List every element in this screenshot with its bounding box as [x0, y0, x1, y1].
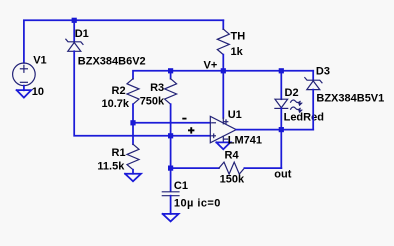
junction (D2 top) [279, 68, 284, 73]
junction (R2 bottom / R1 / - wire) [130, 120, 135, 125]
voltage source V1 [13, 63, 36, 90]
zener diode D1 [66, 39, 83, 51]
resistor TH [217, 20, 229, 71]
svg-text:750k: 750k [140, 96, 165, 108]
svg-text:R1: R1 [112, 147, 126, 159]
wire (output node to D3 bottom) [281, 129, 313, 131]
svg-text:10µ ic=0: 10µ ic=0 [174, 197, 221, 209]
svg-text:R2: R2 [112, 85, 126, 97]
wire V+ rail [133, 71, 313, 79]
svg-text:V+: V+ [204, 59, 218, 71]
capacitor C1 [162, 136, 179, 214]
op-amp U1 [210, 116, 236, 142]
svg-text:10.7k: 10.7k [102, 98, 130, 110]
svg-text:LedRed: LedRed [284, 112, 324, 124]
junction (output node) [279, 127, 284, 132]
svg-text:D3: D3 [316, 66, 330, 78]
junction (TH bottom / V+ rail) [221, 68, 226, 73]
svg-text:out: out [274, 169, 291, 181]
svg-text:D1: D1 [75, 28, 89, 40]
svg-text:150k: 150k [220, 174, 245, 186]
junction (D1 / top rail) [72, 18, 77, 23]
wire (top rail to D1) [73, 20, 75, 42]
ground (op-amp V-) [216, 142, 230, 149]
svg-text:V1: V1 [33, 55, 46, 67]
wire (op-amp output) [236, 129, 281, 131]
junction (C1 / R4) [168, 166, 173, 171]
wire (- input) [133, 122, 210, 124]
junction (R3 top) [168, 68, 173, 73]
ground (R1) [125, 174, 141, 182]
resistor R4 [171, 162, 282, 174]
svg-text:D2: D2 [285, 87, 299, 99]
svg-text:R4: R4 [225, 150, 240, 162]
svg-text:U1: U1 [228, 109, 242, 121]
svg-text:BZX384B5V1: BZX384B5V1 [316, 92, 384, 104]
wire (V+ rail to op-amp V+ pin) [222, 71, 224, 118]
svg-text:BZX384B6V2: BZX384B6V2 [78, 55, 146, 67]
wire top rail [24, 20, 223, 63]
wire (D1 to + input of op-amp) [74, 51, 210, 136]
resistor R2 [127, 79, 139, 123]
svg-text:1k: 1k [231, 46, 244, 58]
ground (C1) [163, 214, 179, 222]
svg-text:10: 10 [32, 86, 44, 98]
svg-text:11.5k: 11.5k [97, 161, 125, 173]
LED D2 arrows [291, 100, 303, 113]
wire (R4 right to output node) [280, 130, 282, 169]
ground (V1) [17, 90, 32, 98]
svg-text:TH: TH [231, 31, 246, 43]
junction (R3 bottom / C1 / + wire) [168, 133, 173, 138]
label + (non-inverting marker) [188, 127, 194, 133]
label - (inverting marker) [182, 118, 186, 120]
resistor R3 [165, 71, 177, 136]
zener diode D3 [305, 71, 322, 130]
svg-text:C1: C1 [174, 180, 188, 192]
svg-text:LM741: LM741 [228, 135, 262, 147]
LED D2 [275, 71, 288, 130]
resistor R1 [127, 123, 139, 174]
svg-text:R3: R3 [150, 82, 164, 94]
